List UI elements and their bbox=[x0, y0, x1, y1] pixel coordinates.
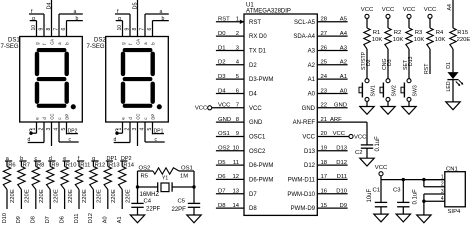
svg-text:22: 22 bbox=[321, 103, 328, 109]
7-segment display DS2 box bbox=[106, 37, 169, 123]
svg-text:b: b bbox=[76, 16, 79, 22]
capacitor C3 0.1uF bbox=[402, 180, 404, 203]
svg-text:C5: C5 bbox=[178, 199, 186, 205]
U1 pin 14 D8 wire bbox=[216, 207, 244, 209]
svg-text:15: 15 bbox=[321, 203, 328, 209]
svg-text:24: 24 bbox=[321, 74, 328, 80]
node C3 junction bbox=[402, 178, 405, 181]
DS1 pin2 wire net d bbox=[43, 122, 45, 143]
svg-text:9: 9 bbox=[236, 131, 239, 137]
svg-text:D1: D1 bbox=[446, 62, 452, 69]
svg-text:RST: RST bbox=[249, 20, 261, 26]
DS1 pin5 wire net DP2 bbox=[66, 122, 68, 134]
svg-text:D6: D6 bbox=[218, 174, 226, 180]
svg-text:10K: 10K bbox=[414, 37, 425, 43]
svg-text:D1: D1 bbox=[218, 45, 226, 51]
U1 pin 1 arrow bbox=[240, 20, 244, 24]
svg-text:R2: R2 bbox=[394, 30, 402, 36]
svg-text:8: 8 bbox=[46, 28, 52, 31]
DS2 pin4 wire net c bbox=[144, 122, 146, 142]
VCC symbol at U1 pin 20 bbox=[349, 134, 353, 138]
svg-text:ARF: ARF bbox=[330, 117, 342, 123]
svg-text:c: c bbox=[57, 118, 62, 120]
DS2 pin2 wire net d bbox=[129, 122, 131, 143]
resistor R3 10K bbox=[406, 28, 412, 49]
svg-text:1: 1 bbox=[236, 17, 239, 23]
svg-text:C1: C1 bbox=[373, 188, 381, 194]
svg-text:LED: LED bbox=[446, 81, 452, 91]
svg-text:A5: A5 bbox=[340, 17, 348, 23]
U1 pin 2 D0 wire bbox=[216, 35, 244, 37]
svg-text:220E: 220E bbox=[111, 189, 117, 203]
DS2 pin5 wire net DP1 bbox=[152, 122, 154, 134]
svg-text:SIP4: SIP4 bbox=[448, 209, 461, 215]
U1 pin 6 D4 wire bbox=[216, 92, 244, 94]
svg-text:21: 21 bbox=[321, 117, 328, 123]
U1 pin 24 A1 wire bbox=[317, 78, 347, 80]
svg-text:12: 12 bbox=[232, 174, 239, 180]
ground below CN1 bbox=[417, 215, 431, 223]
svg-text:22PF: 22PF bbox=[146, 206, 161, 212]
U1 pin 25 A2 wire bbox=[317, 64, 347, 66]
svg-text:A4: A4 bbox=[447, 4, 453, 10]
svg-text:A3: A3 bbox=[340, 45, 348, 51]
svg-text:b: b bbox=[162, 16, 165, 22]
ground below C5 bbox=[187, 215, 201, 223]
svg-text:8: 8 bbox=[132, 28, 138, 31]
DS2 common wire net D5 bbox=[137, 0, 139, 37]
svg-text:D6-PWM: D6-PWM bbox=[249, 163, 273, 169]
svg-text:13: 13 bbox=[232, 189, 239, 195]
svg-text:D2: D2 bbox=[249, 63, 257, 69]
U1 pin 21 ARF wire bbox=[317, 121, 367, 123]
svg-text:16: 16 bbox=[321, 189, 328, 195]
svg-text:220E: 220E bbox=[68, 189, 74, 203]
svg-text:A0: A0 bbox=[340, 88, 348, 94]
svg-text:RST: RST bbox=[218, 17, 230, 23]
svg-text:DP: DP bbox=[65, 114, 70, 120]
svg-text:TX D1: TX D1 bbox=[249, 49, 267, 55]
svg-text:D3: D3 bbox=[218, 74, 226, 80]
switch SW1 bbox=[365, 79, 369, 83]
svg-text:D6-PWM: D6-PWM bbox=[249, 178, 273, 184]
switch SW2 bbox=[386, 79, 390, 83]
U1 pin 16 D10 wire bbox=[317, 193, 347, 195]
svg-text:22PF: 22PF bbox=[172, 207, 187, 213]
svg-text:D7: D7 bbox=[249, 192, 257, 198]
wire VCC rail bbox=[381, 179, 445, 181]
svg-text:C3: C3 bbox=[393, 188, 401, 194]
U1 pin 23 A0 wire bbox=[317, 92, 347, 94]
svg-text:25: 25 bbox=[321, 60, 328, 66]
svg-text:a: a bbox=[74, 9, 77, 15]
connector CN1 SIP4 box bbox=[445, 172, 466, 207]
svg-text:VCC: VCC bbox=[403, 7, 416, 13]
svg-text:CA: CA bbox=[136, 39, 141, 45]
svg-text:Y1: Y1 bbox=[162, 176, 168, 182]
svg-text:10K: 10K bbox=[393, 37, 404, 43]
svg-text:A1: A1 bbox=[340, 74, 347, 80]
svg-text:220E: 220E bbox=[53, 189, 59, 203]
capacitor C2 wire from U1 pin 21 bbox=[366, 122, 368, 145]
svg-text:U1: U1 bbox=[246, 3, 254, 9]
svg-text:3: 3 bbox=[441, 189, 444, 195]
svg-text:9: 9 bbox=[39, 28, 45, 31]
ground below C3 bbox=[396, 214, 410, 222]
svg-text:SDA-A4: SDA-A4 bbox=[293, 34, 315, 40]
resistor R2 10K bbox=[385, 28, 391, 49]
svg-text:220E: 220E bbox=[39, 189, 45, 203]
wire net D13 bbox=[408, 49, 410, 79]
svg-text:D11: D11 bbox=[337, 174, 347, 180]
svg-text:D12: D12 bbox=[88, 213, 94, 223]
svg-text:D8: D8 bbox=[249, 206, 257, 212]
resistor R15 220E bbox=[450, 28, 456, 49]
svg-text:CC: CC bbox=[136, 114, 141, 120]
DS1 top pin wires bbox=[36, 21, 38, 37]
svg-text:D2: D2 bbox=[366, 59, 372, 66]
svg-text:PWM-D11: PWM-D11 bbox=[288, 178, 316, 184]
ground below C2 bbox=[360, 158, 374, 166]
wire net D3 bbox=[387, 49, 389, 79]
svg-text:R3: R3 bbox=[415, 30, 423, 36]
U1 pin 5 D3 wire bbox=[216, 78, 244, 80]
svg-text:A2: A2 bbox=[340, 60, 347, 66]
svg-text:ATMEGA328DIP: ATMEGA328DIP bbox=[246, 9, 291, 15]
CN1 pin 4 junction bbox=[422, 200, 425, 203]
svg-text:10uF: 10uF bbox=[367, 188, 373, 202]
svg-text:D4: D4 bbox=[249, 92, 257, 98]
switch SW3 bbox=[407, 79, 411, 83]
svg-text:g: g bbox=[32, 16, 35, 22]
svg-text:PWM-D9: PWM-D9 bbox=[291, 206, 316, 212]
svg-text:19: 19 bbox=[321, 146, 328, 152]
resistor R4 10K bbox=[427, 28, 433, 49]
svg-text:g: g bbox=[118, 16, 121, 22]
svg-text:CA: CA bbox=[50, 39, 55, 45]
svg-text:D9: D9 bbox=[339, 203, 347, 209]
svg-text:220E: 220E bbox=[25, 189, 31, 203]
svg-text:D7: D7 bbox=[45, 216, 51, 223]
svg-text:OS2: OS2 bbox=[218, 146, 230, 152]
svg-text:VCC: VCC bbox=[249, 106, 262, 112]
svg-text:7: 7 bbox=[54, 28, 60, 31]
resistor R1 10K bbox=[364, 28, 370, 49]
U1 pin 4 D2 wire bbox=[216, 64, 244, 66]
svg-text:d: d bbox=[114, 137, 117, 143]
U1 pin 19 D13 wire bbox=[317, 150, 347, 152]
svg-text:C4: C4 bbox=[144, 199, 152, 205]
U1 pin 20 VCC wire bbox=[317, 135, 349, 137]
CN1 pin 1 wire bbox=[424, 179, 445, 181]
svg-text:DS2: DS2 bbox=[94, 38, 106, 44]
svg-text:RX D0: RX D0 bbox=[249, 34, 267, 40]
svg-text:A0: A0 bbox=[103, 216, 109, 223]
svg-text:VCC: VCC bbox=[382, 7, 395, 13]
svg-text:D5: D5 bbox=[132, 2, 138, 9]
U1 pin 22 GND wire bbox=[317, 107, 347, 109]
DS1 digit segments bbox=[35, 48, 76, 109]
svg-text:1: 1 bbox=[441, 174, 444, 180]
svg-text:28: 28 bbox=[321, 17, 328, 23]
svg-text:7-SEG: 7-SEG bbox=[1, 44, 19, 50]
svg-text:A1: A1 bbox=[117, 216, 123, 223]
CN1 pin 4 wire bbox=[423, 194, 425, 201]
svg-text:VCC: VCC bbox=[333, 131, 346, 137]
svg-text:D13: D13 bbox=[408, 56, 414, 66]
svg-text:27: 27 bbox=[321, 31, 328, 37]
svg-text:OS1: OS1 bbox=[218, 131, 230, 137]
svg-text:GND: GND bbox=[334, 103, 347, 109]
svg-text:VCC: VCC bbox=[302, 135, 315, 141]
DS1 pin1 wire net e bbox=[36, 122, 38, 133]
ground below SW1 bbox=[360, 107, 374, 115]
svg-text:A3: A3 bbox=[308, 49, 316, 55]
svg-text:10: 10 bbox=[31, 25, 37, 31]
svg-text:a: a bbox=[160, 9, 163, 15]
ground below C4 bbox=[130, 215, 144, 223]
svg-text:D7: D7 bbox=[218, 189, 226, 195]
svg-text:26: 26 bbox=[321, 45, 328, 51]
svg-text:18: 18 bbox=[321, 160, 328, 166]
svg-text:D2: D2 bbox=[218, 60, 226, 66]
svg-text:C2: C2 bbox=[355, 150, 363, 156]
svg-text:1M: 1M bbox=[180, 174, 188, 180]
svg-text:16MHZ: 16MHZ bbox=[140, 192, 160, 198]
svg-text:D3-PWM: D3-PWM bbox=[249, 77, 273, 83]
svg-text:D13: D13 bbox=[336, 146, 348, 152]
svg-text:23: 23 bbox=[321, 88, 328, 94]
svg-text:A2: A2 bbox=[308, 63, 316, 69]
svg-text:7-SEG: 7-SEG bbox=[87, 44, 105, 50]
svg-text:10: 10 bbox=[117, 25, 123, 31]
svg-text:220E: 220E bbox=[82, 189, 88, 203]
CN1 pin 2 wire bbox=[423, 180, 425, 187]
svg-text:SCL-A5: SCL-A5 bbox=[294, 20, 316, 26]
svg-text:A1: A1 bbox=[308, 77, 316, 83]
DS2 digit segments bbox=[121, 48, 162, 109]
ground below C1 bbox=[374, 214, 388, 222]
U1 pin 9 OS1 wire bbox=[216, 135, 244, 137]
U1 pin 10 OS2 wire bbox=[216, 150, 244, 152]
wire CN1 to ground bbox=[423, 201, 425, 215]
svg-text:RST: RST bbox=[424, 63, 430, 74]
7-segment display DS1 box bbox=[20, 37, 83, 123]
svg-text:e: e bbox=[115, 128, 118, 134]
wire D1 to ground bbox=[452, 80, 454, 102]
svg-text:D10: D10 bbox=[2, 213, 8, 223]
wire net D2 bbox=[366, 49, 368, 79]
svg-text:SW1: SW1 bbox=[371, 85, 377, 96]
svg-text:R5: R5 bbox=[141, 174, 149, 180]
svg-text:D8: D8 bbox=[218, 203, 226, 209]
ground below D1 bbox=[446, 102, 460, 110]
svg-text:220E: 220E bbox=[125, 189, 131, 203]
svg-text:CN1: CN1 bbox=[446, 166, 458, 172]
svg-text:R15: R15 bbox=[457, 30, 469, 36]
svg-text:VCC: VCC bbox=[375, 165, 388, 171]
svg-text:AN-REF: AN-REF bbox=[293, 120, 316, 126]
svg-text:D11: D11 bbox=[74, 214, 80, 224]
svg-text:d: d bbox=[28, 137, 31, 143]
svg-text:9: 9 bbox=[125, 28, 131, 31]
U1 pin 3 D1 wire bbox=[216, 49, 244, 51]
svg-text:10K: 10K bbox=[435, 37, 446, 43]
svg-text:D3: D3 bbox=[387, 59, 393, 66]
wire R15 to D1 bbox=[452, 49, 454, 72]
CN1 pin 3 wire bbox=[424, 193, 445, 195]
U1 pin 27 A4 wire bbox=[317, 35, 347, 37]
svg-text:D0: D0 bbox=[218, 31, 226, 37]
svg-text:SW2: SW2 bbox=[392, 85, 398, 96]
svg-text:OSC2: OSC2 bbox=[249, 149, 266, 155]
svg-text:2: 2 bbox=[441, 182, 444, 188]
svg-text:4: 4 bbox=[441, 196, 444, 202]
svg-text:A0: A0 bbox=[308, 92, 316, 98]
U1 pin 17 D11 wire bbox=[317, 178, 347, 180]
U1 pin 8 GND wire bbox=[216, 121, 244, 123]
U1 pin 28 A5 wire bbox=[317, 21, 347, 23]
wire net RST bbox=[429, 49, 431, 74]
LED D1 bbox=[447, 72, 458, 79]
svg-text:GND: GND bbox=[302, 106, 316, 112]
svg-text:10K: 10K bbox=[372, 37, 383, 43]
svg-text:R4: R4 bbox=[436, 30, 444, 36]
U1 pin 13 D7 wire bbox=[216, 193, 244, 195]
U1 pin 15 D9 wire bbox=[317, 207, 347, 209]
DS1 pin4 wire net c bbox=[58, 122, 60, 142]
svg-text:220E: 220E bbox=[457, 37, 471, 43]
resistor R5 1M bbox=[153, 168, 179, 174]
svg-text:7: 7 bbox=[140, 28, 146, 31]
svg-text:PWM-D10: PWM-D10 bbox=[287, 192, 315, 198]
svg-text:D9: D9 bbox=[16, 216, 22, 223]
svg-text:DS1: DS1 bbox=[8, 38, 20, 44]
svg-text:D8: D8 bbox=[31, 216, 37, 223]
svg-text:14: 14 bbox=[232, 203, 239, 209]
svg-text:e: e bbox=[29, 128, 32, 134]
svg-text:R1: R1 bbox=[373, 30, 381, 36]
svg-text:c: c bbox=[143, 118, 148, 120]
capacitor C1 10uF bbox=[380, 180, 382, 203]
op IC U1 ATMEGA328DIP box bbox=[244, 14, 317, 215]
U1 pin 12 D6 wire bbox=[216, 178, 244, 180]
U1 pin 1 RST wire bbox=[216, 21, 244, 23]
svg-text:A4: A4 bbox=[340, 31, 348, 37]
svg-text:11: 11 bbox=[233, 160, 239, 166]
svg-text:20: 20 bbox=[321, 131, 328, 137]
U1 pin 18 D12 wire bbox=[317, 164, 347, 166]
svg-text:6: 6 bbox=[147, 28, 153, 31]
svg-text:VCC: VCC bbox=[218, 103, 231, 109]
svg-text:D5: D5 bbox=[218, 160, 226, 166]
svg-text:DP: DP bbox=[151, 114, 156, 120]
svg-text:OSC1: OSC1 bbox=[249, 135, 266, 141]
svg-text:VCC: VCC bbox=[195, 106, 208, 112]
svg-text:D4: D4 bbox=[46, 2, 52, 9]
svg-text:CC: CC bbox=[50, 114, 55, 120]
ground below SW2 bbox=[381, 107, 395, 115]
svg-text:220E: 220E bbox=[97, 189, 103, 203]
DS2 pin3 common stub bbox=[137, 122, 139, 146]
svg-text:0.1uF: 0.1uF bbox=[375, 136, 381, 152]
svg-text:D12: D12 bbox=[336, 160, 347, 166]
DS2 top pin wires bbox=[122, 21, 124, 37]
svg-text:220E: 220E bbox=[10, 189, 16, 203]
svg-text:0.1uF: 0.1uF bbox=[413, 189, 419, 205]
svg-text:GND: GND bbox=[218, 117, 231, 123]
capacitor C2 bbox=[361, 144, 373, 146]
svg-text:D4: D4 bbox=[218, 88, 226, 94]
svg-text:VCC: VCC bbox=[361, 7, 374, 13]
svg-text:D13: D13 bbox=[304, 149, 316, 155]
svg-text:7: 7 bbox=[236, 103, 239, 109]
U1 pin 26 A3 wire bbox=[317, 49, 347, 51]
node CN1 junction bbox=[422, 178, 425, 181]
svg-text:VCC: VCC bbox=[424, 7, 437, 13]
DS1 pin3 common stub bbox=[51, 122, 53, 146]
ground below SW3 bbox=[402, 107, 416, 115]
svg-text:D12: D12 bbox=[304, 163, 316, 169]
svg-text:GND: GND bbox=[249, 120, 263, 126]
svg-text:17: 17 bbox=[321, 174, 328, 180]
wire net A4 to R15 bbox=[452, 0, 454, 28]
svg-text:6: 6 bbox=[61, 28, 67, 31]
svg-text:2: 2 bbox=[236, 31, 239, 37]
U1 pin 11 D5 wire bbox=[216, 164, 244, 166]
svg-text:D10: D10 bbox=[336, 189, 348, 195]
DS1 common wire net D4 bbox=[51, 0, 53, 37]
DS2 pin1 wire net e bbox=[122, 122, 124, 133]
svg-text:SW3: SW3 bbox=[413, 85, 419, 96]
svg-text:10: 10 bbox=[232, 146, 239, 152]
svg-text:D6: D6 bbox=[59, 216, 65, 223]
svg-text:VCC: VCC bbox=[354, 134, 367, 140]
